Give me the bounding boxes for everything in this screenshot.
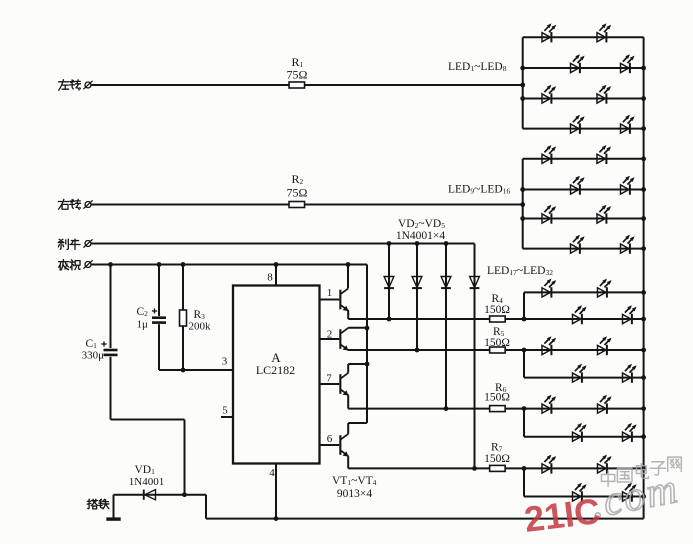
svg-text:150Ω: 150Ω	[484, 392, 510, 404]
svg-text:1: 1	[327, 287, 333, 299]
svg-text:1N4001: 1N4001	[129, 476, 164, 488]
svg-text:75Ω: 75Ω	[287, 186, 308, 200]
svg-text:8: 8	[267, 272, 273, 284]
svg-text:150Ω: 150Ω	[484, 337, 510, 349]
svg-text:4: 4	[269, 467, 275, 479]
svg-text:150Ω: 150Ω	[484, 453, 510, 465]
svg-text:2: 2	[327, 329, 333, 341]
svg-text:LED9~LED16: LED9~LED16	[448, 184, 510, 196]
svg-text:VD2~VD5: VD2~VD5	[398, 218, 445, 230]
svg-text:5: 5	[222, 405, 228, 417]
svg-text:9013×4: 9013×4	[337, 488, 372, 500]
svg-text:330μ: 330μ	[82, 350, 105, 362]
svg-text:7: 7	[326, 373, 332, 385]
svg-text:LED1~LED8: LED1~LED8	[448, 61, 507, 73]
svg-text:LC2182: LC2182	[256, 363, 295, 377]
svg-text:LED17~LED32: LED17~LED32	[487, 265, 553, 277]
svg-text:6: 6	[327, 433, 333, 445]
svg-text:1N4001×4: 1N4001×4	[396, 230, 446, 242]
svg-text:200k: 200k	[189, 321, 212, 333]
svg-text:VT1~VT4: VT1~VT4	[332, 475, 377, 487]
svg-text:75Ω: 75Ω	[287, 68, 308, 82]
svg-text:1μ: 1μ	[137, 319, 149, 331]
svg-text:3: 3	[222, 356, 228, 368]
svg-text:21IC: 21IC	[522, 490, 602, 539]
svg-text:150Ω: 150Ω	[484, 304, 510, 316]
